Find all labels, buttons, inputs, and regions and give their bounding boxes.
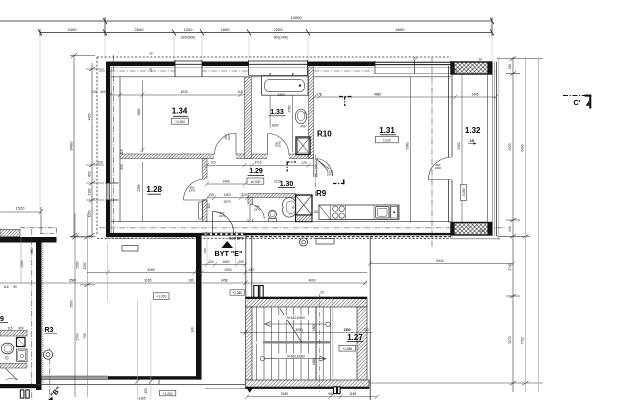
- svg-text:20: 20: [149, 68, 153, 72]
- svg-text:750: 750: [363, 328, 369, 332]
- svg-text:3715: 3715: [254, 161, 261, 165]
- interior dim line 1.34 (4515): [108, 93, 244, 98]
- shaft rects above stair top wall: [254, 286, 259, 298]
- svg-text:200: 200: [208, 193, 214, 197]
- exterior wall bottom (black band left part): [106, 233, 202, 237]
- svg-text:2600: 2600: [135, 27, 145, 32]
- svg-text:3000: 3000: [295, 328, 303, 332]
- svg-text:200: 200: [238, 260, 244, 264]
- svg-text:3185: 3185: [281, 392, 288, 396]
- svg-text:C': C': [573, 98, 580, 107]
- stairwell right wall: [357, 307, 367, 380]
- svg-text:115: 115: [120, 149, 124, 154]
- window W4 in left wall (1.28): [105, 183, 119, 200]
- svg-text:R3: R3: [45, 327, 54, 334]
- stair treads lower flight: [257, 344, 331, 381]
- corridor dim y=264.5 (200/1600/200): [202, 262, 247, 267]
- svg-text:BYT "E": BYT "E": [215, 249, 243, 258]
- svg-text:1.29: 1.29: [249, 168, 263, 175]
- lower unit top wall band (left part): [0, 237, 57, 243]
- exterior wall left (black band): [106, 62, 110, 236]
- WC 1.30 left wall (hatched): [248, 198, 253, 222]
- roof overhang dashed line left: [96, 57, 98, 236]
- svg-text:540: 540: [508, 64, 512, 70]
- stairwell top wall (hatched with black edge): [246, 297, 368, 307]
- washbasin 1.30: [283, 198, 296, 217]
- axis dash-dot x=49.8: [49, 348, 51, 400]
- svg-text:2200: 2200: [435, 166, 442, 170]
- svg-text:480: 480: [30, 248, 34, 254]
- svg-text:3165: 3165: [144, 278, 151, 282]
- svg-text:12: 12: [149, 52, 153, 56]
- svg-text:2760: 2760: [287, 105, 291, 112]
- room label 1.28: [146, 185, 162, 194]
- +1,200 level box (mid): [154, 293, 170, 300]
- svg-text:200: 200: [202, 199, 208, 203]
- svg-text:400: 400: [100, 90, 106, 94]
- svg-text:4515: 4515: [180, 90, 187, 94]
- right dimension chains: [369, 57, 543, 393]
- svg-text:1650: 1650: [221, 27, 231, 32]
- axis line y=283 horizontal: [0, 282, 367, 284]
- stair treads upper flight: [257, 307, 331, 342]
- svg-text:5270: 5270: [508, 336, 512, 343]
- svg-text:-0,050: -0,050: [462, 188, 466, 197]
- svg-text:1800: 1800: [271, 123, 278, 127]
- radiator rect below wall: [122, 246, 138, 251]
- svg-text:+1,485: +1,485: [342, 347, 352, 351]
- svg-text:20: 20: [478, 58, 482, 62]
- stove (4 rings): [333, 206, 345, 218]
- room label 1.32: [465, 126, 481, 145]
- svg-text:600(1400): 600(1400): [274, 36, 289, 40]
- svg-text:1970: 1970: [327, 173, 334, 177]
- dishwasher with dot: [391, 207, 398, 219]
- stair axis hline: [240, 332, 372, 334]
- bottom wall lower dashed line: [97, 237, 451, 239]
- svg-text:140: 140: [191, 327, 195, 333]
- svg-text:8415: 8415: [436, 259, 443, 263]
- svg-text:4980: 4980: [374, 92, 381, 96]
- washbasin 1.33: [295, 109, 306, 124]
- svg-text:150: 150: [144, 388, 148, 394]
- svg-text:3165: 3165: [138, 397, 145, 401]
- entrance door BYT E (arc+leaf): [213, 212, 234, 233]
- kitchen sink: [376, 207, 390, 219]
- svg-text:1300: 1300: [343, 328, 350, 332]
- corner level mark B (R9): [287, 162, 297, 172]
- vdim bathroom lines: [269, 73, 271, 128]
- svg-text:1970: 1970: [278, 141, 282, 148]
- top wall inner face line: [111, 76, 451, 78]
- svg-text:5090: 5090: [70, 300, 74, 307]
- svg-text:1520: 1520: [16, 206, 26, 211]
- door opening 1.28 in right wall: [202, 179, 208, 200]
- bathroom 1.33 right wall (hatched): [309, 67, 314, 159]
- top wall axis dash-dot: [99, 70, 497, 72]
- svg-text:2400: 2400: [68, 27, 78, 32]
- landing bar (thick gray): [263, 341, 331, 344]
- door 1.28 (arc+leaf): [184, 179, 205, 200]
- svg-text:R10: R10: [317, 130, 332, 139]
- 1.31 axis dash-dot vertical: [431, 57, 433, 247]
- svg-text:R9: R9: [316, 189, 327, 198]
- svg-text:2860: 2860: [137, 108, 141, 115]
- bathtub: [262, 76, 309, 95]
- partition wall 1.34/1.28 + corridor top (hatched band): [120, 154, 314, 159]
- svg-text:14000: 14000: [290, 15, 302, 20]
- svg-text:1458: 1458: [220, 279, 227, 283]
- svg-text:790: 790: [83, 333, 87, 339]
- svg-text:9×162,6/300: 9×162,6/300: [287, 355, 305, 359]
- roof overhang dashed line top: [97, 56, 451, 58]
- shower tray lower-left: [17, 349, 28, 362]
- svg-text:90: 90: [13, 285, 17, 289]
- exterior wall top (black band): [106, 62, 451, 67]
- interior vdim 1.31 (5380): [410, 77, 412, 223]
- svg-text:5265: 5265: [147, 268, 154, 272]
- shaft rects below stair bottom wall: [334, 387, 337, 394]
- WC 1.30 top wall (hatched): [248, 194, 296, 198]
- svg-text:120: 120: [454, 69, 458, 75]
- svg-text:400: 400: [300, 125, 306, 129]
- stairwell corridor walls up: [245, 236, 247, 298]
- interior vdim 1.34 (2860): [141, 80, 145, 152]
- vdim line x=87.3 (gray): [86, 213, 88, 397]
- bathroom dark shaft box: [17, 338, 26, 347]
- corner level mark A (1.31): [339, 97, 352, 107]
- svg-text:1.34: 1.34: [172, 106, 188, 115]
- door labels: [189, 133, 442, 218]
- axis dash-dot jog at lower unit top: [20, 228, 56, 234]
- kitchen wall stub + axis: [313, 159, 315, 178]
- svg-text:2200: 2200: [277, 93, 284, 97]
- svg-text:2790: 2790: [76, 333, 80, 340]
- pocket sliding door 1.28: [199, 202, 203, 219]
- svg-text:4450: 4450: [88, 113, 92, 120]
- svg-text:1300: 1300: [223, 193, 230, 197]
- walk line upper flight with circle and arrow: [265, 322, 331, 327]
- stair axis dash-dot vertical: [319, 294, 321, 392]
- svg-text:600: 600: [88, 171, 92, 177]
- svg-text:1970: 1970: [254, 208, 261, 212]
- top dimension labels: [68, 15, 406, 40]
- interior dim line 1.31 (175/4980/1495): [313, 95, 499, 100]
- horizontal dim line y=272.5 (5265): [87, 270, 367, 275]
- interior floor line above bottom wall: [111, 221, 451, 223]
- stair bottom dim line: [245, 395, 379, 400]
- svg-text:115: 115: [207, 203, 211, 208]
- +1,200 level box (bottom): [160, 390, 176, 396]
- svg-text:7720: 7720: [521, 337, 525, 344]
- stair break line diagonal: [280, 308, 302, 342]
- stair vdim lines: [316, 307, 318, 380]
- svg-text:1400: 1400: [222, 179, 229, 183]
- step line to stair corridor: [36, 384, 246, 386]
- svg-text:700: 700: [203, 248, 207, 253]
- door jamb blocks bottom: [20, 390, 24, 398]
- extension lines from BYT E bottom wall: [108, 231, 236, 400]
- shaft lower (WC/kitchen) with X cross: [296, 195, 313, 222]
- balcony parapet bottom crosshatch: [451, 223, 492, 236]
- partition 1.28 right wall (hatched): [203, 159, 208, 222]
- svg-text:1600: 1600: [222, 260, 229, 264]
- svg-text:200: 200: [208, 260, 214, 264]
- window W1 in top wall (1.34): [175, 60, 202, 77]
- svg-text:160: 160: [195, 268, 201, 272]
- door WC 1.30 (arc+leaf): [250, 205, 264, 219]
- svg-text:1.28: 1.28: [146, 185, 162, 194]
- svg-text:6400: 6400: [521, 144, 525, 151]
- svg-text:2000: 2000: [224, 268, 231, 272]
- svg-text:2100: 2100: [88, 188, 92, 195]
- svg-text:1.32: 1.32: [465, 126, 481, 135]
- balcony slab edge lines right: [498, 57, 500, 240]
- svg-text:140: 140: [248, 268, 254, 272]
- svg-text:4000: 4000: [308, 279, 315, 283]
- svg-text:175: 175: [316, 92, 322, 96]
- svg-text:1.30: 1.30: [280, 181, 294, 188]
- kitchen counter: [319, 205, 399, 220]
- lower unit left wall (vertical): [36, 237, 42, 390]
- triangle marker bottom-left of stairwell: [246, 387, 254, 393]
- balcony door opening 1.31/1.32: [448, 157, 454, 180]
- lower unit bottom wall black part: [108, 376, 202, 379]
- svg-text:E30 DP3: E30 DP3: [229, 236, 243, 240]
- interior vdim 1.32 (5320): [461, 74, 463, 223]
- window W3 in top wall (1.31 french window): [375, 60, 451, 74]
- column double circle in corridor: [300, 238, 308, 246]
- svg-text:1200: 1200: [83, 262, 87, 269]
- door opening WC 1.30: [248, 205, 254, 220]
- svg-text:20: 20: [413, 57, 417, 61]
- svg-text:9: 9: [0, 316, 4, 323]
- door 1.33 (arc+leaf): [268, 134, 290, 156]
- svg-text:2580: 2580: [69, 278, 76, 282]
- svg-text:+1,080: +1,080: [232, 291, 242, 295]
- bottom wall axis dash-dot: [99, 227, 505, 229]
- svg-text:180: 180: [188, 278, 194, 282]
- svg-text:5380: 5380: [406, 142, 410, 149]
- bathroom strip bottom wall: [0, 384, 42, 388]
- bathroom hatched wall upper: [0, 331, 27, 337]
- svg-text:20: 20: [320, 291, 324, 295]
- svg-text:5320: 5320: [508, 143, 512, 150]
- svg-text:2385: 2385: [137, 184, 141, 191]
- svg-text:2070: 2070: [223, 200, 230, 204]
- left dimension chain: [70, 54, 104, 238]
- left wall inner face line: [119, 77, 121, 222]
- svg-text:1800: 1800: [312, 358, 316, 365]
- svg-text:1.31: 1.31: [379, 126, 395, 135]
- label 1.27: [339, 333, 364, 351]
- svg-text:120: 120: [479, 229, 485, 233]
- svg-text:9×162,6/300: 9×162,6/300: [287, 316, 305, 320]
- svg-text:1600(900): 1600(900): [181, 36, 196, 40]
- section marker C': [563, 95, 591, 109]
- door swing lower-left: [6, 369, 18, 381]
- balcony door (arc+leaf): [429, 158, 451, 180]
- exterior wall bottom (black band right part): [246, 233, 452, 235]
- svg-text:115: 115: [210, 161, 215, 165]
- svg-text:25: 25: [469, 138, 474, 143]
- door R10 kitchen (arc+leaf): [317, 159, 333, 177]
- BYT E entrance marker: [215, 236, 244, 258]
- svg-text:200: 200: [241, 193, 247, 197]
- walk line lower flight with circle and arrow: [260, 356, 326, 361]
- svg-text:+0,300: +0,300: [175, 120, 185, 124]
- svg-text:1970: 1970: [189, 189, 196, 193]
- svg-text:520: 520: [120, 164, 124, 170]
- door 1.34 (arc+leaf): [215, 133, 237, 155]
- room label 1.31: [376, 126, 399, 143]
- svg-text:1000: 1000: [184, 27, 194, 32]
- right corridor vertical wall line: [369, 236, 371, 400]
- svg-text:120: 120: [91, 90, 97, 94]
- balcony parapet top crosshatch: [451, 62, 492, 74]
- toilet lower-left: [1, 343, 13, 359]
- lower unit right wall (vertical): [196, 237, 202, 380]
- bathroom 1.33 left wall (hatched): [245, 77, 252, 159]
- dashed insulation line under party wall: [108, 238, 200, 240]
- entrance fire door dashed band: [202, 232, 246, 236]
- svg-text:1.33: 1.33: [270, 109, 284, 116]
- corner level mark C (near 1.30): [333, 180, 345, 185]
- neighboring unit hatched wall (left edge): [0, 230, 20, 237]
- svg-text:1250: 1250: [88, 210, 92, 217]
- svg-text:1495: 1495: [471, 92, 478, 96]
- balcony right thin wall: [488, 62, 497, 236]
- room label 1.34: [172, 106, 189, 124]
- svg-text:1165: 1165: [349, 392, 356, 396]
- svg-text:8400: 8400: [69, 141, 74, 151]
- door opening 1.34 in band: [214, 154, 236, 160]
- WC toilet 1.30: [268, 210, 276, 221]
- svg-text:6650: 6650: [396, 27, 406, 32]
- svg-text:2740: 2740: [508, 263, 512, 270]
- svg-text:13,20: 13,20: [383, 138, 391, 142]
- svg-text:175: 175: [301, 161, 307, 165]
- vdim line x=75: [74, 213, 76, 397]
- shaft upper (bathroom) with X cross: [296, 137, 310, 155]
- room label 1.33: [269, 109, 286, 116]
- top dimension chain: [0, 17, 494, 36]
- svg-text:+1,200: +1,200: [163, 392, 173, 396]
- slab edge below bottom parapet: [451, 238, 500, 240]
- room label 1.29: [247, 168, 264, 184]
- bottom wall insulation dashes: [107, 237, 200, 239]
- svg-text:115: 115: [237, 90, 242, 94]
- interior vdim 1.28 (2385): [142, 162, 144, 222]
- R3 circle symbol: [43, 350, 52, 359]
- svg-text:526: 526: [97, 161, 103, 165]
- interior dim 1400 (corridor): [205, 182, 247, 187]
- corridor dim 8415: [368, 261, 515, 266]
- vdim line x=21: [20, 237, 22, 283]
- svg-text:1800: 1800: [312, 324, 316, 331]
- svg-text:115: 115: [313, 210, 318, 214]
- svg-text:2200: 2200: [274, 27, 284, 32]
- stair flight labels: [295, 328, 303, 332]
- left wall axis dash-dot: [113, 55, 115, 238]
- svg-text:400: 400: [36, 312, 40, 318]
- axis dash-dot x=31.8: [31, 229, 33, 400]
- svg-text:900: 900: [18, 327, 24, 331]
- svg-text:2115: 2115: [274, 180, 281, 184]
- room label 1.30: [274, 180, 295, 189]
- svg-text:1.27: 1.27: [347, 333, 363, 342]
- door opening 1.33 in band: [267, 154, 289, 160]
- svg-text:2300: 2300: [76, 261, 80, 268]
- partition 1.31/1.32 (double line): [449, 66, 453, 223]
- lower unit bottom wall grey part: [42, 376, 109, 380]
- lower unit left wall outer hatch line: [42, 242, 44, 384]
- stairwell left wall: [246, 307, 253, 380]
- svg-text:540: 540: [508, 226, 512, 232]
- radiator rect right corridor: [316, 239, 334, 245]
- interior dim 1300/2070 (sliding door): [205, 196, 249, 201]
- interior dim line 1.29 (3715): [205, 163, 314, 168]
- svg-text:960: 960: [328, 392, 334, 396]
- left 1520 dimension: [0, 207, 43, 234]
- svg-text:2380: 2380: [20, 260, 24, 267]
- svg-text:1970: 1970: [227, 133, 231, 140]
- stairwell bottom wall (hatched with black edge): [246, 380, 370, 389]
- svg-text:115: 115: [7, 327, 12, 331]
- svg-text:5320: 5320: [457, 142, 461, 149]
- svg-text:1970: 1970: [219, 214, 226, 218]
- svg-text:±0,000: ±0,000: [251, 180, 261, 184]
- svg-text:+1,200: +1,200: [156, 295, 166, 299]
- svg-text:115: 115: [3, 285, 8, 289]
- bathroom hatched wall lower: [0, 364, 27, 369]
- window W2 in top wall (bathroom 1.33): [249, 60, 308, 78]
- rotated level box in 1.32: [461, 185, 467, 201]
